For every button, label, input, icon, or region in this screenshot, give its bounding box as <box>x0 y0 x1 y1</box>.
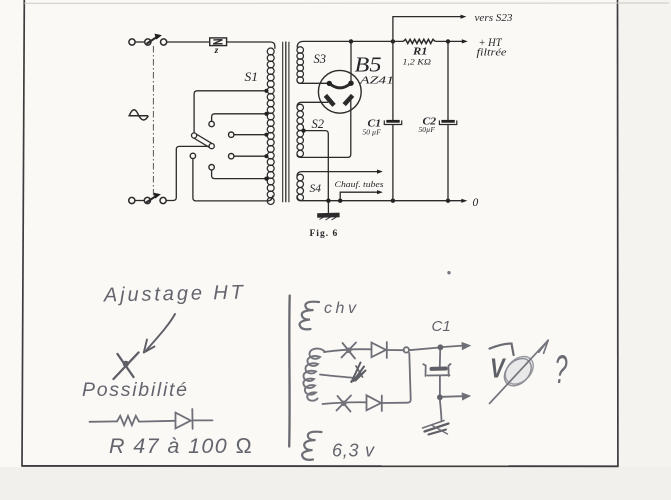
svg-text:C1: C1 <box>432 318 451 335</box>
middle branch wire <box>320 375 355 379</box>
filter capacitor sketch <box>439 350 441 367</box>
winding 6.3V curls <box>302 432 321 460</box>
svg-text:?: ? <box>555 348 568 392</box>
winding chv curls <box>300 302 319 330</box>
secondary winding S3 <box>297 47 304 84</box>
diode D1 <box>372 343 387 358</box>
HT rail after R1 <box>435 40 462 42</box>
secondary winding S2 <box>297 104 304 157</box>
X mark <box>114 353 139 380</box>
selector contacts <box>209 121 214 126</box>
svg-text:50µF: 50µF <box>419 125 436 134</box>
svg-text:0: 0 <box>473 197 479 209</box>
svg-text:S1: S1 <box>245 70 259 84</box>
svg-text:vers S23: vers S23 <box>475 13 513 24</box>
capacitor C2 <box>439 41 456 200</box>
svg-text:50 µF: 50 µF <box>363 127 382 136</box>
svg-text:V: V <box>490 353 506 384</box>
primary bottom lead wire <box>193 159 273 201</box>
heater arrow 2 from ground rail <box>340 192 377 201</box>
X mark bottom <box>337 396 352 412</box>
tap wire 4 <box>234 155 266 157</box>
border frame <box>22 0 24 466</box>
wire up to junction <box>382 353 411 403</box>
transformer primary winding S1 <box>267 48 274 204</box>
0 volt rail <box>297 196 462 201</box>
resistor R1 <box>403 39 435 43</box>
node dot bottom <box>437 394 443 400</box>
voltmeter V <box>490 340 549 403</box>
S2 center tap wire to ground rail <box>304 131 329 201</box>
wire fuse to primary <box>227 42 275 49</box>
switch SW2 bottom pole <box>129 193 167 204</box>
vers S23 branch <box>393 17 461 42</box>
tap wire 5 <box>212 170 267 179</box>
S2 top lead to left anode <box>297 102 328 107</box>
transformer core <box>283 42 289 203</box>
selector wiper <box>192 133 215 149</box>
X mark top <box>342 343 357 359</box>
wiper feed wire from bottom switch <box>166 146 209 200</box>
series diode sketch <box>176 413 191 429</box>
svg-text:chv: chv <box>324 300 357 317</box>
annotation arrow <box>147 314 176 350</box>
switch SW1 top pole <box>129 34 167 46</box>
series resistor sketch <box>90 420 118 422</box>
svg-text:filtrée: filtrée <box>477 48 508 59</box>
wire to ground sketch <box>440 400 442 422</box>
S2 bottom lead to right anode <box>297 99 351 157</box>
svg-text:Chauf. tubes: Chauf. tubes <box>335 179 385 189</box>
svg-text:z: z <box>214 46 219 56</box>
svg-text:B5: B5 <box>355 53 382 77</box>
node C1 dot <box>438 344 444 350</box>
switch linkage dash-dot line <box>152 46 154 197</box>
rail junction dots <box>326 39 450 203</box>
tap junction dots <box>264 89 268 181</box>
output arrow top <box>443 346 462 347</box>
wire switch to fuse <box>167 41 210 43</box>
S4 top lead heater arrow <box>297 172 378 177</box>
tap wire 1 <box>194 91 266 133</box>
scribbled diode middle <box>352 363 366 383</box>
diode D2 <box>367 395 382 410</box>
svg-text:AZ41: AZ41 <box>358 76 394 87</box>
secondary winding S4 <box>297 174 304 201</box>
svg-text:S4: S4 <box>310 181 322 195</box>
svg-text:Fig. 6: Fig. 6 <box>310 229 339 239</box>
HT winding curls <box>303 349 325 401</box>
winding bus line <box>288 296 291 447</box>
svg-text:S2: S2 <box>312 117 325 131</box>
ground sketch <box>425 424 449 432</box>
top branch wire <box>324 349 371 352</box>
svg-text:6,3 v: 6,3 v <box>332 441 375 461</box>
svg-text:R 47 à 100 Ω: R 47 à 100 Ω <box>109 434 252 458</box>
svg-text:S3: S3 <box>314 52 327 66</box>
ground symbol <box>317 201 340 220</box>
tap wire 3 <box>234 134 266 136</box>
S3 bottom lead to filament <box>297 81 329 84</box>
svg-text:1,2 KΩ: 1,2 KΩ <box>403 57 432 67</box>
junction circle <box>404 347 409 352</box>
capacitor C1 <box>384 41 401 200</box>
bottom branch wire <box>323 402 367 404</box>
wire filament to HT rail <box>350 41 352 82</box>
S3 top lead / HT rail start <box>297 41 403 47</box>
rectifier tube B5 <box>318 70 361 113</box>
fuse Z <box>210 38 227 46</box>
output arrow bottom <box>443 395 463 398</box>
AC source symbol <box>128 110 148 120</box>
stray pencil dot <box>447 271 450 274</box>
svg-text:Possibilité: Possibilité <box>82 379 187 401</box>
tap wire 2 <box>212 114 267 121</box>
